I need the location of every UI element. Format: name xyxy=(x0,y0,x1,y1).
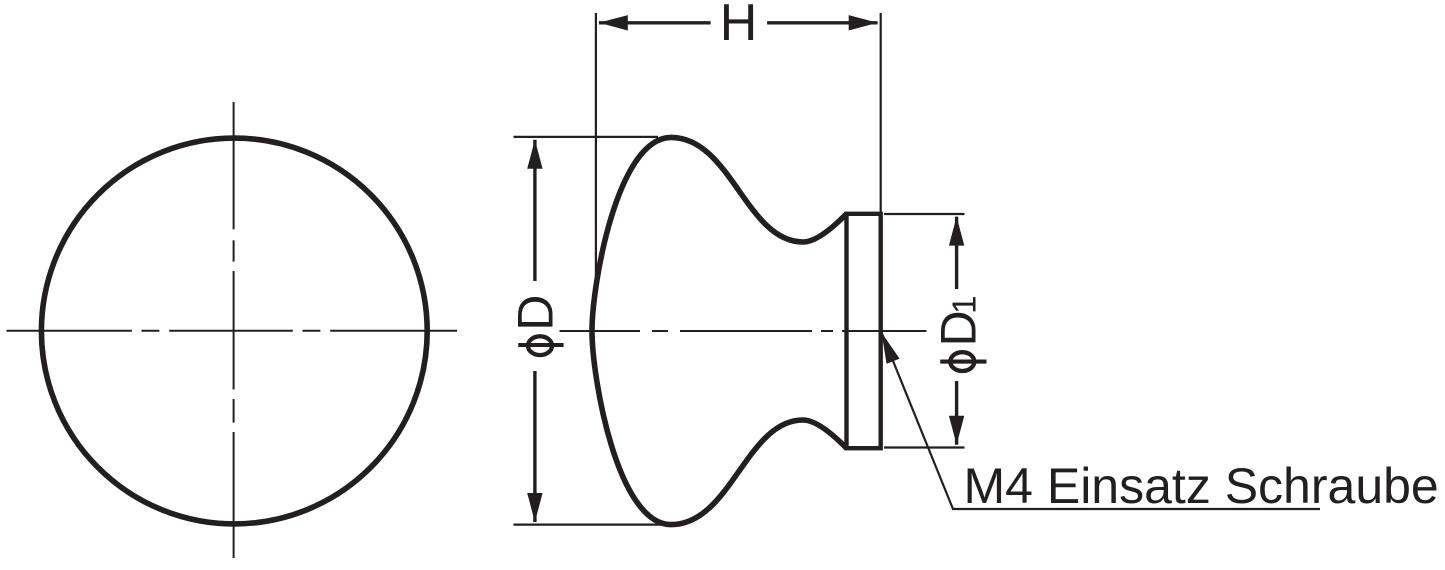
phi-D extension line bottom xyxy=(514,523,665,525)
phi-D1 arrowhead top xyxy=(949,217,964,246)
leader arrowhead xyxy=(882,333,900,364)
phi-D extension line top xyxy=(514,136,659,138)
phi-D1 arrowhead bottom xyxy=(949,416,964,445)
leader line to M4 screw note xyxy=(882,333,1321,510)
label phi-D (rotated) xyxy=(507,295,563,356)
H dimension arrowhead left xyxy=(599,15,628,30)
svg-text:D: D xyxy=(507,295,563,331)
H dimension line xyxy=(599,21,878,24)
front view circle (knob head) xyxy=(41,138,427,524)
phi-D arrowhead top xyxy=(527,140,542,169)
phi-D arrowhead bottom xyxy=(527,493,542,522)
H dimension extension line right xyxy=(880,13,882,214)
svg-text:H: H xyxy=(720,0,758,52)
side view knob profile outline xyxy=(592,137,847,524)
side view base plate rectangle xyxy=(847,214,881,448)
label phi-D1 (rotated) xyxy=(931,296,987,371)
H dimension arrowhead right xyxy=(849,15,878,30)
svg-text:M4 Einsatz Schraube: M4 Einsatz Schraube xyxy=(964,458,1439,514)
side view horizontal centerline xyxy=(560,330,927,332)
phi-D1 extension line bottom xyxy=(884,446,965,448)
front view horizontal centerline xyxy=(7,330,458,332)
phi-D dimension line xyxy=(533,140,536,522)
front view vertical centerline xyxy=(233,102,235,558)
H dimension extension line left xyxy=(595,13,597,282)
phi-D1 extension line top xyxy=(884,213,965,215)
phi-D1 dimension line xyxy=(955,217,958,445)
